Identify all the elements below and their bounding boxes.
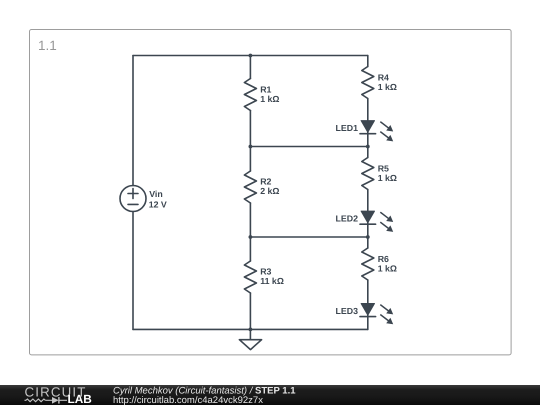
wire bottom rail: [133, 328, 368, 330]
wire middle branch seg2: [249, 111, 251, 172]
wire top rail: [133, 55, 368, 57]
wire middle branch seg1: [249, 56, 251, 79]
svg-text:LED3: LED3: [336, 306, 359, 316]
resistor R4 body: [362, 67, 374, 99]
wire left branch upper: [132, 56, 134, 186]
svg-text:2 kΩ: 2 kΩ: [260, 186, 279, 196]
wire right branch seg4: [367, 190, 369, 238]
node junction C mid: [249, 235, 253, 239]
footer bar: [0, 385, 540, 405]
voltage source V1 Vin body: [120, 186, 146, 212]
wire middle branch seg4: [249, 293, 251, 329]
svg-text:R1: R1: [260, 85, 271, 95]
resistor R3 body: [244, 261, 256, 293]
node junction top mid: [249, 54, 253, 58]
resistor R1 body: [244, 79, 256, 111]
wire right branch seg6: [367, 280, 369, 329]
svg-text:R6: R6: [378, 254, 389, 264]
svg-text:http://circuitlab.com/c4a24vck: http://circuitlab.com/c4a24vck92z7x: [113, 395, 263, 405]
svg-text:R2: R2: [260, 176, 271, 186]
svg-text:R5: R5: [378, 164, 389, 174]
wire middle branch seg3: [249, 203, 251, 261]
svg-text:LED1: LED1: [336, 123, 359, 133]
ground symbol: [239, 340, 261, 350]
LED2 symbol: [360, 211, 393, 232]
resistor R2 body: [244, 171, 256, 203]
wire right branch seg2: [367, 99, 369, 147]
node junction bottom mid: [249, 328, 253, 332]
ground stub wire: [249, 329, 251, 339]
svg-text:1.1: 1.1: [38, 38, 57, 53]
wire right branch seg5: [367, 237, 369, 248]
node junction B right: [366, 145, 370, 149]
svg-text:LAB: LAB: [68, 392, 92, 405]
LED1 symbol: [360, 121, 393, 142]
CircuitLab logo circuit line with resistor and diode: [25, 399, 53, 402]
svg-text:1 kΩ: 1 kΩ: [378, 264, 397, 274]
resistor R6 body: [362, 248, 374, 280]
LED3 symbol: [360, 304, 393, 325]
wire node C to LED2 bottom: [250, 236, 367, 238]
svg-text:1 kΩ: 1 kΩ: [378, 173, 397, 183]
svg-text:LED2: LED2: [336, 214, 359, 224]
svg-text:12 V: 12 V: [149, 199, 167, 209]
svg-text:R3: R3: [260, 267, 271, 277]
wire right branch seg3: [367, 147, 369, 158]
wire node B to LED1 bottom: [250, 146, 367, 148]
resistor R5 body: [362, 158, 374, 190]
V1 plus sign: [128, 189, 138, 199]
wire right branch seg1: [367, 56, 369, 67]
svg-text:1 kΩ: 1 kΩ: [260, 94, 279, 104]
wire left branch lower: [132, 212, 134, 330]
svg-text:1 kΩ: 1 kΩ: [378, 82, 397, 92]
schematic sheet frame: [30, 30, 512, 355]
svg-text:R4: R4: [378, 73, 389, 83]
svg-text:Vin: Vin: [149, 189, 163, 199]
node junction C right: [366, 235, 370, 239]
node junction B mid: [249, 145, 253, 149]
svg-text:11 kΩ: 11 kΩ: [260, 276, 284, 286]
V1 minus sign: [128, 203, 138, 205]
